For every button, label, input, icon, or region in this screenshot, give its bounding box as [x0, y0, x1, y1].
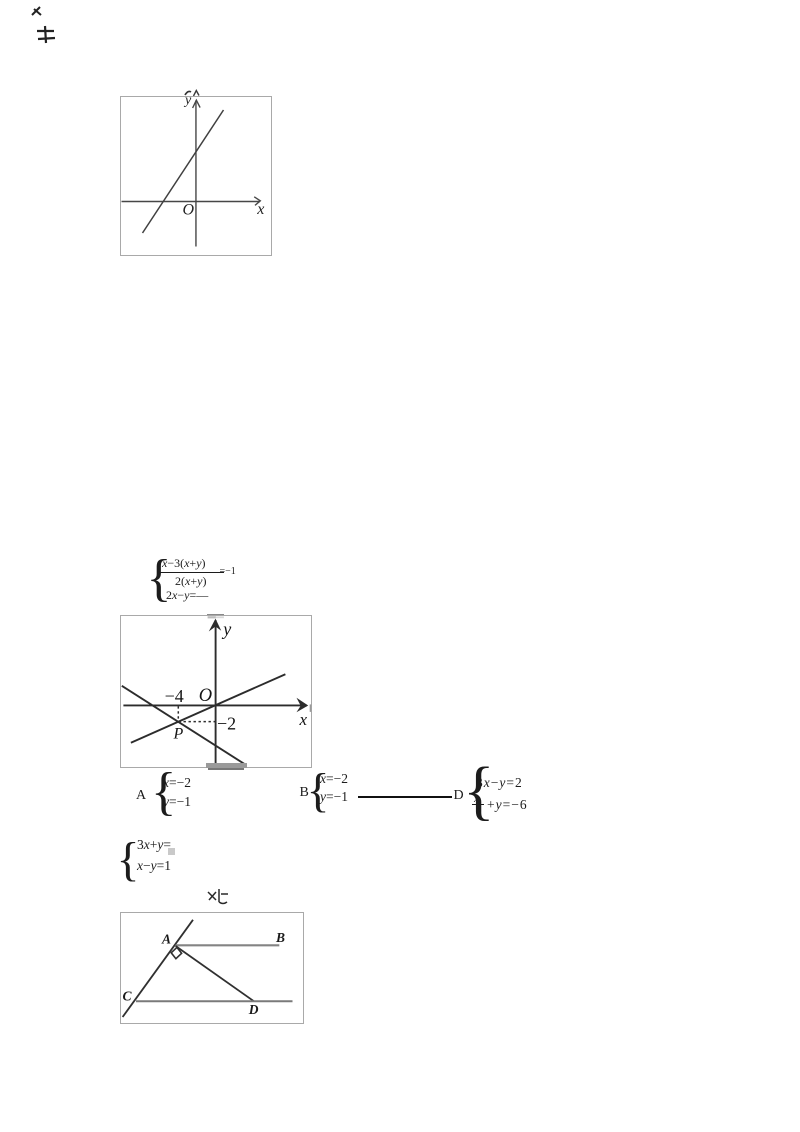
graph box 2: two lines intersecting at P with axes, labels -4, O, -2, P — [120, 615, 312, 768]
x-axis arrowhead — [254, 197, 260, 206]
x-axis — [122, 201, 261, 203]
svg-text:A: A — [161, 932, 171, 947]
svg-text:C: C — [123, 989, 133, 1004]
svg-text:O: O — [183, 202, 195, 219]
rhs — [220, 566, 236, 577]
D second row with small fraction — [474, 793, 479, 805]
transversal line through C and A — [123, 920, 193, 1017]
line CD (gray) — [136, 1000, 293, 1002]
option A letter and system — [136, 788, 146, 804]
question number fragment top-left — [28, 3, 62, 47]
svg-text:D: D — [248, 1002, 259, 1017]
svg-text:P: P — [173, 726, 184, 743]
svg-text:−4: −4 — [165, 686, 184, 706]
slanted line — [143, 110, 224, 233]
svg-text:x: x — [299, 710, 308, 729]
x-axis solid arrowhead — [297, 698, 309, 713]
gray smudge inside right edge — [310, 704, 312, 712]
lower system G5 — [117, 832, 140, 887]
geometry box 3: perpendicular lines with points A B C D — [120, 912, 304, 1024]
svg-text:−2: −2 — [217, 714, 236, 734]
gray smudge above box2 top edge at y-axis — [207, 614, 224, 616]
fraction bar — [160, 572, 225, 573]
option B letter and system — [300, 785, 309, 801]
y-axis solid arrowhead — [209, 619, 222, 632]
svg-text:O: O — [199, 686, 212, 706]
x-axis — [123, 704, 307, 706]
svg-text:y: y — [221, 619, 231, 639]
svg-text:y: y — [183, 96, 192, 108]
y-axis arrowhead — [193, 100, 201, 108]
line A rising through origin — [131, 674, 286, 743]
svg-text:x: x — [256, 201, 264, 218]
option D letter and system — [454, 788, 464, 804]
gray smudge inside top edge — [208, 616, 216, 618]
dotted vertical from x-axis to P — [177, 706, 179, 721]
top of y label and arrow tip poking above box1 border — [180, 88, 204, 96]
small character fragment G6 — [203, 886, 231, 908]
option C blank underline — [358, 796, 452, 798]
segment AD — [176, 946, 254, 1001]
gray placeholder square — [168, 848, 175, 855]
line B falling through P — [122, 686, 247, 766]
svg-text:B: B — [275, 930, 285, 945]
y-axis — [195, 101, 197, 247]
dotted horizontal from P to y-axis — [179, 721, 216, 723]
right-angle mark at A — [171, 947, 181, 958]
ray AB (gray) — [176, 944, 280, 946]
y-axis — [215, 620, 217, 764]
second row — [166, 588, 208, 603]
gray smudge on box2 bottom edge at y-axis exit — [206, 763, 248, 768]
graph box 1: line y=kx+b, axes x/y, origin O — [120, 96, 272, 256]
formula G1: system with fraction above graph 2 — [147, 549, 172, 608]
